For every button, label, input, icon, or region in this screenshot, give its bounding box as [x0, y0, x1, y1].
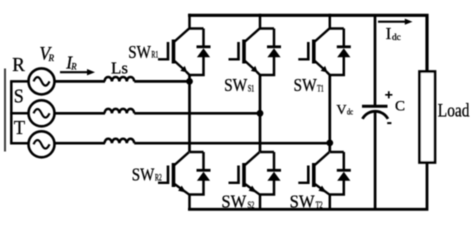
- wire SW_S2 collector split: [260, 151, 274, 154]
- wire T phase (source to inductor): [55, 142, 106, 145]
- wire left source bus: [10, 81, 13, 143]
- transistor SW_R2 IGBT: [172, 163, 176, 187]
- wire SW_S2 node to bottom bus: [259, 195, 262, 210]
- transistor SW_S1 IGBT: [242, 40, 246, 64]
- diode D_R1: [202, 29, 205, 47]
- wire SW_R2 collector split: [190, 151, 204, 154]
- svg-text:S: S: [14, 86, 24, 108]
- svg-text:I: I: [386, 24, 392, 43]
- resistor Load box: [420, 72, 436, 163]
- arrow Idc: [378, 21, 406, 23]
- wire SW_T1 collector stub: [330, 14, 344, 29]
- AC source VS: [29, 100, 55, 126]
- svg-text:R: R: [48, 53, 55, 63]
- scan artifact left edge: [4, 69, 6, 152]
- node S junction: [257, 110, 264, 117]
- wire T source stub: [10, 142, 29, 145]
- wire SW_T2 node to bottom bus: [329, 195, 332, 210]
- svg-text:R1: R1: [151, 50, 158, 60]
- AC source VR: [29, 68, 55, 94]
- inductor phase T: [105, 139, 135, 143]
- svg-text:T1: T1: [317, 83, 324, 93]
- wire capacitor bottom: [374, 112, 377, 209]
- label capacitor minus: [387, 122, 391, 124]
- svg-text:R: R: [12, 54, 25, 76]
- transistor SW_T2 IGBT: [312, 163, 316, 187]
- svg-text:SW: SW: [294, 75, 317, 95]
- capacitor C: [362, 105, 388, 108]
- diode D_T1: [343, 29, 346, 47]
- wire S source stub: [10, 112, 28, 115]
- wire bottom DC bus: [188, 162, 427, 209]
- svg-text:S2: S2: [248, 200, 255, 210]
- svg-text:S1: S1: [248, 83, 255, 93]
- wire leg R vertical: [188, 75, 191, 152]
- wire top DC bus: [188, 15, 427, 71]
- wire leg T vertical: [328, 75, 331, 152]
- svg-text:SW: SW: [128, 42, 151, 62]
- wire R phase (inductor to bridge): [134, 80, 189, 83]
- diode D_S2: [273, 152, 276, 170]
- svg-text:Load: Load: [438, 100, 470, 121]
- wire leg S vertical: [259, 75, 262, 152]
- wire SW_R1 emitter to node: [186, 72, 190, 76]
- wire R source stub: [10, 80, 28, 83]
- node T junction: [326, 140, 333, 147]
- svg-text:R2: R2: [155, 172, 162, 182]
- wire S phase (source to inductor): [55, 112, 106, 115]
- label capacitor plus: [385, 91, 392, 98]
- inductor Ls phase R: [105, 77, 135, 81]
- wire SW_T2 collector split: [330, 151, 344, 154]
- svg-text:SW: SW: [224, 75, 247, 95]
- svg-text:C: C: [395, 99, 405, 115]
- svg-text:T2: T2: [316, 200, 323, 210]
- wire SW_R1 collector stub: [190, 14, 204, 29]
- svg-text:V: V: [336, 102, 346, 117]
- svg-text:dc: dc: [347, 107, 353, 117]
- wire SW_S1 emitter to node: [257, 72, 261, 76]
- svg-text:dc: dc: [392, 32, 401, 42]
- inductor phase S: [105, 109, 135, 113]
- AC source VT: [29, 131, 55, 157]
- wire SW_S1 collector stub: [260, 14, 274, 29]
- node R junction: [186, 78, 193, 85]
- diode D_R2: [202, 152, 205, 170]
- diode D_S1: [273, 29, 276, 47]
- arrow IR: [60, 71, 88, 73]
- svg-text:Ls: Ls: [111, 58, 128, 77]
- svg-text:SW: SW: [132, 165, 155, 185]
- wire S phase (inductor to bridge): [134, 112, 260, 115]
- transistor SW_R1 IGBT: [172, 40, 176, 64]
- diode D_T2: [343, 152, 346, 170]
- wire capacitor top: [374, 15, 377, 105]
- svg-text:SW: SW: [290, 192, 315, 212]
- svg-text:SW: SW: [221, 192, 246, 212]
- wire SW_R2 node to bottom bus: [188, 195, 191, 210]
- transistor SW_T1 IGBT: [312, 40, 316, 64]
- wire SW_T1 emitter to node: [326, 72, 330, 76]
- wire R phase (source to inductor): [55, 80, 106, 83]
- svg-text:R: R: [70, 62, 77, 72]
- transistor SW_S2 IGBT: [242, 163, 246, 187]
- wire T phase (inductor to bridge): [134, 142, 330, 145]
- svg-text:T: T: [14, 117, 25, 139]
